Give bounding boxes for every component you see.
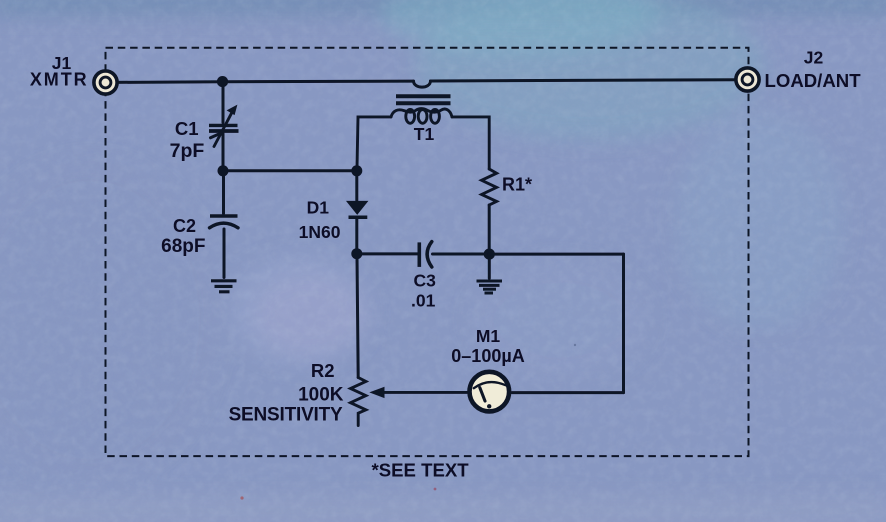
wire: right branch down to meter level xyxy=(622,254,625,393)
node A (top rail / C1 tap) xyxy=(217,76,228,87)
svg-text:68pF: 68pF xyxy=(161,236,205,257)
svg-text:XMTR: XMTR xyxy=(30,70,89,90)
potentiometer R2 xyxy=(351,378,468,426)
ground (below junction E) xyxy=(477,281,503,293)
wire: junction D down to R2 xyxy=(357,257,358,378)
connector J1 xyxy=(94,71,117,94)
resistor R1 xyxy=(482,169,497,205)
svg-text:100K: 100K xyxy=(298,384,344,405)
dashed enclosure border xyxy=(106,48,749,456)
node D (D1 / C3 / R2 junction) xyxy=(351,248,362,259)
svg-text:SENSITIVITY: SENSITIVITY xyxy=(229,405,343,426)
svg-text:M1: M1 xyxy=(476,326,501,346)
svg-text:1N60: 1N60 xyxy=(299,222,341,242)
svg-text:T1: T1 xyxy=(414,124,435,144)
svg-text:LOAD/ANT: LOAD/ANT xyxy=(765,70,862,91)
wire: top rail junction A to T1 hop xyxy=(222,80,414,84)
svg-text:R1*: R1* xyxy=(502,175,532,195)
wire: junction B to junction C xyxy=(223,169,357,172)
svg-text:*SEE TEXT: *SEE TEXT xyxy=(372,459,470,480)
svg-text:J2: J2 xyxy=(804,48,824,68)
wire: T1 secondary left lead xyxy=(357,117,391,168)
variable capacitor C1 xyxy=(209,84,239,167)
svg-text:0–100µA: 0–100µA xyxy=(451,346,524,366)
wire: top rail hop over T1 (primary pass-through) xyxy=(414,81,431,87)
meter M1 xyxy=(470,372,510,412)
svg-text:C3: C3 xyxy=(414,271,437,291)
node E (C3 / R1 / ground / meter branch) xyxy=(484,249,495,260)
transformer T1 core xyxy=(396,96,451,103)
svg-text:7pF: 7pF xyxy=(170,140,205,162)
node B (C1 / C2 junction) xyxy=(218,165,229,176)
svg-text:C1: C1 xyxy=(175,118,199,139)
transformer T1 secondary winding xyxy=(391,109,452,124)
wire: T1 secondary right lead xyxy=(452,117,489,169)
connector J2 xyxy=(736,68,759,91)
svg-text:D1: D1 xyxy=(307,198,330,218)
wire: R1 to junction E xyxy=(488,205,491,250)
capacitor C3 xyxy=(419,242,432,267)
node C (T1 secondary / D1 junction) xyxy=(351,165,362,176)
capacitor C2 xyxy=(210,174,239,278)
svg-text:C2: C2 xyxy=(173,216,196,236)
diode D1 xyxy=(346,174,368,249)
svg-text:.01: .01 xyxy=(411,291,436,311)
wire: corner to M1 right terminal xyxy=(512,391,624,394)
wire: junction E right to corner xyxy=(489,253,623,256)
wire: top rail J1 to junction A xyxy=(115,80,222,84)
ground (below C2) xyxy=(211,281,237,292)
wire: C3 to junction E xyxy=(433,253,489,256)
wire: junction E to ground xyxy=(488,254,491,278)
wire: top rail T1 to J2 xyxy=(431,80,738,81)
wire: junction D to C3 xyxy=(357,252,418,255)
svg-text:R2: R2 xyxy=(311,360,335,381)
